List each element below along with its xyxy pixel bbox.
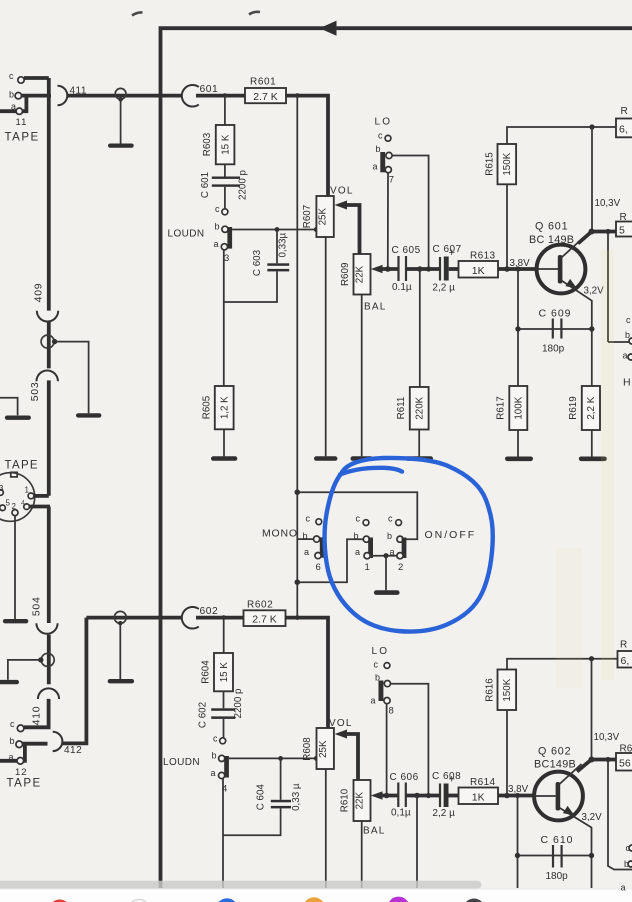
transistor Q602 [534, 759, 592, 828]
svg-text:R602: R602 [247, 600, 273, 611]
svg-text:BC149B: BC149B [534, 759, 576, 771]
loudness lower contact c circle [220, 738, 226, 744]
label MONO [262, 528, 298, 540]
svg-text:R609: R609 [340, 263, 351, 286]
ground bar onoff [374, 590, 400, 595]
wire C602 to contact c [223, 719, 225, 738]
svg-text:C 603: C 603 [252, 249, 263, 276]
junction dot below node circle [118, 97, 122, 101]
svg-text:a: a [355, 547, 360, 557]
svg-text:C 601: C 601 [200, 172, 211, 198]
wire 10,3V drop to collector [591, 127, 593, 232]
terminator bar pin2 [3, 619, 28, 623]
junction dot R603 tap [223, 93, 228, 98]
onoff2 contact c label [388, 513, 393, 523]
svg-text:15 K: 15 K [219, 662, 230, 683]
wire C604 top lead [280, 758, 282, 799]
svg-text:b: b [212, 751, 217, 761]
junction dot mono tap lower [295, 615, 300, 620]
svg-text:180p: 180p [542, 344, 565, 355]
pin number 4 [222, 784, 227, 795]
pin number 7 [389, 175, 394, 186]
wire LO lower b to bus [391, 684, 429, 796]
connector 410 cap arc [38, 688, 59, 699]
node circle on lower chain [41, 653, 54, 666]
svg-text:2: 2 [398, 562, 403, 573]
label H right edge [623, 377, 631, 389]
junction dot R604 tap [221, 615, 226, 620]
svg-text:c: c [215, 204, 220, 214]
LO contact b label [376, 144, 381, 154]
pin number 1 [365, 562, 370, 573]
potentiometer R610 [354, 780, 371, 821]
pen dash mark right [249, 12, 260, 15]
blue pen annotation circle around ON/OFF [325, 458, 493, 632]
junction dot below lower node circle [118, 621, 122, 625]
svg-text:R607: R607 [302, 205, 313, 228]
svg-text:R608: R608 [302, 737, 313, 761]
loudness lower switch lever [224, 756, 229, 778]
onoff1 contact a label [355, 547, 360, 557]
svg-text:MONO: MONO [262, 528, 298, 540]
svg-text:2,2 K: 2,2 K [586, 396, 597, 419]
wire R605 to bar [223, 429, 225, 456]
capacitor C603 label rotated [252, 249, 263, 276]
svg-text:LOUDN: LOUDN [168, 229, 205, 240]
terminator bar below branch [76, 413, 101, 417]
resistor R615 label rotated [484, 152, 495, 176]
svg-text:R619: R619 [568, 396, 579, 419]
wire lower main line left [86, 616, 181, 620]
resistor R614 label [470, 777, 496, 788]
wire loudness lower b to R608 tap [229, 757, 317, 759]
wire C603 bottom to a-chain [224, 271, 277, 302]
svg-text:R613: R613 [470, 251, 496, 262]
svg-text:TAPE: TAPE [5, 460, 39, 472]
connector 411 arc [58, 86, 68, 106]
wire R610 bottom offscreen [361, 821, 363, 888]
svg-text:602: 602 [200, 606, 219, 617]
connector 503 cap arc [37, 371, 58, 382]
wire mono b link [297, 538, 313, 540]
svg-text:Q 601: Q 601 [535, 221, 568, 233]
svg-text:a: a [214, 239, 219, 249]
resistor box right collector [616, 212, 632, 237]
connector 12 contact a label [9, 752, 14, 762]
transistor Q601 [537, 231, 593, 301]
label TAPE lower [7, 778, 42, 790]
svg-text:0,1µ: 0,1µ [391, 808, 411, 819]
wire loudness lower a down offscreen [222, 779, 224, 888]
svg-text:c: c [9, 71, 14, 81]
capacitor C601 plates [212, 177, 240, 187]
wire stub from left edge [0, 398, 18, 416]
mono contact a label [304, 547, 309, 557]
resistor R603 label rotated [202, 132, 213, 156]
bottom white strip [0, 889, 632, 902]
resistor R602 label [247, 600, 273, 611]
transistor Q602 type label [534, 759, 576, 771]
svg-text:c: c [388, 513, 393, 523]
pin number 8 [389, 706, 394, 717]
junction dot C610 left [515, 853, 520, 858]
svg-text:5: 5 [619, 225, 625, 237]
onoff1 contact b label [354, 531, 359, 541]
loudness contact a circle [221, 244, 227, 250]
capacitor C606 value [391, 808, 411, 819]
svg-text:R610: R610 [340, 788, 351, 812]
svg-text:3,8V: 3,8V [510, 258, 531, 269]
svg-text:C 610: C 610 [541, 834, 574, 846]
svg-text:BAL: BAL [363, 826, 386, 837]
capacitor C607 plates polarized [440, 257, 449, 281]
potentiometer R607 [316, 196, 333, 237]
junction dot onoff ground [383, 553, 388, 558]
resistor R604 label rotated [200, 660, 211, 684]
svg-text:+: + [449, 247, 455, 259]
svg-text:150K: 150K [502, 678, 513, 701]
ground bar under R617 [505, 457, 533, 462]
wire upper main line left [67, 94, 181, 98]
svg-text:+: + [449, 774, 455, 786]
svg-text:3: 3 [0, 484, 4, 493]
svg-text:2200 p: 2200 p [238, 169, 249, 200]
junction dot bus drop lower [414, 793, 420, 799]
svg-text:0,33µ: 0,33µ [278, 232, 289, 257]
resistor R613 label [470, 251, 496, 262]
LO switch lever upper [380, 152, 385, 172]
wire node circle to terminator [120, 100, 122, 144]
pen dash mark left [132, 12, 143, 15]
svg-text:3,8V: 3,8V [508, 784, 529, 795]
svg-text:b: b [9, 90, 14, 100]
junction dot collector right [605, 229, 610, 234]
wire Q602 collector to right box [590, 758, 616, 762]
wire 10,3V drop to collector lower [591, 659, 593, 760]
svg-text:R: R [620, 640, 627, 651]
capacitor C601 label rotated [200, 172, 211, 198]
svg-text:Q 602: Q 602 [538, 746, 571, 758]
contact c circle [18, 77, 24, 83]
svg-text:C 604: C 604 [255, 784, 266, 811]
wire C607 to R613 [449, 267, 459, 271]
LO lower contact c label [374, 659, 379, 669]
R607 wiper arrow [335, 201, 360, 255]
junction dot left of node circle [38, 657, 43, 662]
wire left chain vertical lower [24, 507, 49, 728]
connector 409 cup arc [37, 311, 58, 322]
wire onoff top rail [297, 492, 417, 539]
capacitor C604 value rotated [291, 783, 302, 811]
wire R616 to bus [506, 710, 508, 796]
wire R611 tap down [419, 269, 421, 387]
potentiometer R607 label rotated [302, 205, 313, 228]
potentiometer R610 label rotated [340, 788, 351, 812]
LO contact c label [378, 131, 383, 141]
capacitor C608 value [432, 808, 455, 819]
capacitor C602 label rotated [198, 702, 209, 728]
wire right edge connector drop upper [608, 232, 632, 343]
svg-text:TAPE: TAPE [5, 132, 40, 144]
svg-text:7: 7 [389, 175, 394, 186]
label 3,2V lower [582, 812, 603, 823]
label 11 [16, 117, 28, 128]
loudness lower contact a label [211, 768, 216, 778]
transistor Q601 type label [529, 234, 574, 246]
junction dot C603 tap [275, 227, 280, 232]
svg-text:22K: 22K [355, 265, 366, 283]
resistor R619 label rotated [568, 396, 579, 419]
pin number 2 [398, 562, 403, 573]
DIN pin5 label [6, 499, 11, 508]
DIN pin1 label [25, 486, 30, 495]
svg-text:25K: 25K [318, 740, 329, 758]
DIN pin3 label [0, 484, 4, 493]
capacitor C609 plates [553, 319, 562, 339]
wire C608 to R614 [449, 794, 459, 798]
wire R609 bottom to bar [361, 295, 363, 457]
wire R603 tap down [224, 96, 226, 125]
contact c circle lower [17, 725, 24, 732]
terminator bar lower branch [0, 680, 19, 684]
capacitor C607 plus sign [449, 247, 455, 259]
capacitor C605 plates [399, 256, 407, 281]
junction dot mono tap upper [295, 93, 300, 98]
svg-text:c: c [356, 513, 361, 523]
svg-text:22K: 22K [355, 792, 366, 810]
junction dot collector corner lower [589, 757, 595, 763]
mono switch lever [320, 537, 325, 557]
mono contact a circle [315, 553, 321, 559]
connector 11 contact b label [9, 90, 14, 100]
svg-text:1: 1 [25, 486, 30, 495]
junction dot R615 at bus [504, 266, 510, 272]
node circle on lower main [114, 611, 126, 623]
wire mono link vertical [296, 96, 298, 618]
svg-text:R611: R611 [396, 397, 407, 420]
wire R603 to C601 [224, 164, 226, 176]
wire lower node circle to terminator [119, 623, 121, 679]
junction dot at R607 tap [314, 227, 319, 232]
wire C606 to C608 [406, 794, 440, 798]
capacitor C610 value [546, 871, 569, 882]
transistor Q601 label [535, 221, 568, 233]
wire R608 bottom offscreen [325, 769, 327, 888]
LO lower contact c circle [384, 663, 390, 669]
svg-text:a: a [304, 547, 309, 557]
junction dot collector corner [589, 229, 595, 235]
svg-text:220K: 220K [415, 396, 426, 419]
svg-text:R614: R614 [470, 777, 496, 788]
svg-text:4: 4 [21, 500, 25, 507]
terminator bar for stub [5, 416, 31, 420]
wire R602 to corner down [286, 618, 329, 728]
connector 504 cup arc [36, 623, 57, 634]
wire R619 to ground [591, 430, 593, 457]
svg-text:b: b [303, 531, 308, 541]
DIN pin 1 [28, 493, 34, 499]
svg-text:c: c [306, 513, 311, 523]
capacitor C604 label rotated [255, 784, 266, 811]
DIN pin 3 [0, 490, 3, 496]
capacitor C603 value rotated [278, 232, 289, 257]
svg-text:150K: 150K [502, 152, 513, 175]
label LOUDN upper [168, 229, 205, 240]
toolbar dot orange [303, 897, 325, 902]
wire branch from node circle to ground [55, 342, 89, 414]
wire onoff a contacts join [370, 555, 397, 557]
svg-text:11: 11 [16, 117, 28, 128]
scan artifact streaks [556, 250, 614, 688]
label 12 [15, 767, 28, 778]
svg-text:2.7 K: 2.7 K [253, 91, 278, 103]
svg-text:10,3V: 10,3V [595, 198, 621, 209]
loudness lower contact a circle [219, 772, 225, 778]
svg-text:25K: 25K [318, 208, 329, 226]
wire onoff to ground [385, 556, 387, 591]
potentiometer R608 [317, 728, 334, 769]
svg-text:a: a [371, 695, 376, 705]
wire loudness a down to R605 [223, 250, 225, 386]
svg-text:BAL: BAL [364, 302, 387, 313]
potentiometer R609 label rotated [340, 263, 351, 286]
wire DIN pin4 to chain [30, 505, 51, 509]
label 412 [64, 745, 82, 756]
wire 10,3V rail lower [507, 659, 618, 670]
connector 12 contact b label [10, 736, 15, 746]
ground bar under R619 [579, 457, 607, 462]
capacitor C605 value [392, 282, 412, 293]
svg-text:R604: R604 [200, 660, 211, 684]
capacitor C610 plates [553, 845, 562, 868]
svg-text:6,: 6, [619, 124, 628, 136]
terminator bar under R605 [211, 456, 237, 461]
capacitor C606 label [390, 772, 419, 783]
loudness contact c circle [222, 209, 228, 215]
capacitor C603 plates [267, 263, 289, 271]
svg-text:412: 412 [64, 745, 82, 756]
DIN socket notch [11, 472, 17, 477]
svg-text:VOL: VOL [330, 186, 354, 197]
resistor R602 [244, 610, 286, 626]
label TAPE din [5, 460, 39, 472]
resistor R611 [410, 387, 429, 430]
LO contact a circle [385, 167, 391, 173]
svg-text:409: 409 [34, 283, 45, 303]
wire R619 top [591, 329, 593, 386]
loudness contact a label [214, 239, 219, 249]
connector 412 arc [53, 732, 63, 751]
svg-text:R: R [621, 106, 628, 117]
resistor R616 label rotated [484, 678, 495, 702]
svg-text:12: 12 [15, 767, 28, 778]
svg-text:2200 p: 2200 p [233, 688, 244, 719]
svg-text:b: b [376, 144, 381, 154]
toolbar dot purple [388, 897, 410, 902]
junction dot C609 at bus [515, 266, 520, 271]
capacitor C608 label [432, 771, 461, 782]
arrowhead on top rail pointing left [320, 21, 337, 36]
right edge connector contacts lower [624, 843, 632, 869]
capacitor C609 value [542, 344, 565, 355]
connector 12 contact c label [10, 719, 15, 729]
wire R607 bottom to bar [325, 237, 327, 456]
label 3,8V lower [508, 784, 529, 795]
wire right edge connector drop lower [608, 760, 632, 870]
junction dot C610 right [589, 853, 594, 858]
contact a circle lower [17, 758, 24, 765]
label LO lower [372, 646, 390, 657]
contact a circle [16, 108, 22, 114]
label 602 [200, 606, 219, 617]
wire contact a lower with step [0, 744, 25, 761]
svg-text:100K: 100K [514, 396, 525, 419]
svg-text:c: c [374, 659, 379, 669]
junction dot LO lower b at bus [426, 793, 431, 798]
wire lower bus to C606 [381, 794, 398, 798]
right edge connector contacts upper [623, 315, 632, 361]
svg-text:503: 503 [30, 382, 41, 402]
junction dot mono link top rail [295, 489, 301, 495]
capacitor C610 label [541, 834, 574, 846]
DIN pin 4 [21, 500, 29, 510]
svg-text:b: b [10, 736, 15, 746]
loudness lower contact b label [212, 751, 217, 761]
LO lower contact a label [371, 695, 376, 705]
svg-text:504: 504 [32, 596, 43, 616]
resistor R603 [216, 125, 235, 164]
R608 wiper arrow [335, 730, 358, 781]
terminator bar below upper main [108, 144, 134, 148]
wire LO lower a to bus [386, 704, 388, 796]
svg-text:C 605: C 605 [392, 245, 421, 256]
wire Q601 emitter down [591, 300, 593, 329]
capacitor C602 value rotated [233, 688, 244, 719]
label 504 rotated [32, 596, 43, 616]
capacitor C605 label [392, 245, 421, 256]
resistor R611 label rotated [396, 397, 407, 420]
svg-text:c: c [378, 131, 383, 141]
svg-text:2: 2 [12, 502, 17, 511]
transistor Q602 label [538, 746, 571, 758]
wire R613 to Q601 base [498, 267, 538, 271]
svg-text:3,2V: 3,2V [582, 812, 603, 823]
toolbar dot red [49, 900, 71, 902]
svg-text:1: 1 [365, 562, 370, 573]
wire DIN pin2 down [14, 516, 16, 619]
resistor R615 [498, 144, 517, 184]
resistor R619 [582, 386, 600, 430]
label VOL lower [329, 718, 353, 729]
resistor box lower right edge [618, 640, 632, 668]
svg-text:1K: 1K [472, 265, 485, 277]
loudness lower contact c label [213, 734, 218, 744]
wire C610 link [518, 796, 592, 889]
wire onoff bottom link [297, 539, 363, 582]
LO contact b circle [386, 152, 392, 158]
svg-text:a: a [211, 768, 216, 778]
label 10,3V upper [595, 198, 621, 209]
capacitor C608 plus sign [449, 774, 455, 786]
resistor R617 label rotated [496, 396, 507, 419]
resistor R601 label [250, 77, 276, 88]
label 503 rotated [30, 382, 41, 402]
label 601 [200, 84, 219, 95]
contact b circle lower [16, 741, 23, 748]
terminator bar below lower main [108, 679, 134, 683]
junction dot rail lower [589, 656, 594, 661]
wire LO b to bus [392, 156, 429, 270]
